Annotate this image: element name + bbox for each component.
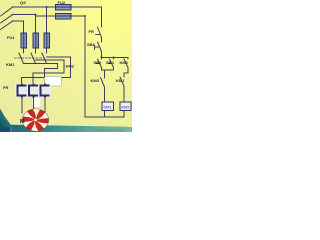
svg-text:KM1: KM1	[6, 62, 15, 67]
contact KM3 NC	[101, 78, 105, 88]
band edge highlight	[10, 125, 12, 132]
wire vertical phase B	[35, 16, 37, 34]
junction node SB1/rung	[101, 57, 103, 59]
teal bottom band	[0, 125, 132, 133]
wire below fuse A	[23, 47, 25, 53]
left rail	[84, 16, 86, 117]
svg-text:KM2: KM2	[122, 105, 131, 110]
wire vertical phase C	[46, 7, 48, 34]
white label box	[45, 77, 62, 87]
heater FR pole C	[41, 84, 50, 98]
coil KM2	[120, 102, 131, 111]
slide background	[0, 0, 132, 132]
svg-text:FR: FR	[89, 29, 94, 34]
coil KM1	[102, 102, 114, 111]
fuse FU1 pole A	[21, 33, 27, 48]
rung merge	[102, 68, 114, 71]
fuse FU2 lower	[56, 14, 72, 20]
heater row backdrop	[15, 83, 52, 98]
wire control rail tap	[36, 15, 86, 17]
svg-text:SB2: SB2	[94, 60, 103, 65]
contact KM1 pole C	[42, 53, 47, 64]
loop wire outer	[22, 57, 71, 85]
contact KM1 pole A	[19, 53, 24, 64]
phase L2 switch blade	[1, 14, 14, 23]
contact SB1 NC button	[98, 42, 102, 52]
contact KM1 pole B	[31, 53, 36, 64]
phase L1 switch blade	[1, 7, 14, 16]
motor M pinwheel	[23, 109, 49, 131]
bottom rail	[85, 116, 124, 118]
svg-text:KM1: KM1	[104, 105, 113, 110]
heater FR pole B	[29, 84, 38, 98]
svg-text:www.zxxk.com: www.zxxk.com	[97, 127, 124, 132]
wire SB1 to node	[101, 52, 103, 58]
white box small	[32, 98, 41, 108]
heater FR pole A	[18, 84, 27, 98]
wire to coil1	[104, 87, 106, 102]
phase L3 switch blade	[1, 21, 14, 30]
wire below fuse C	[46, 47, 48, 53]
junction L2 tap	[35, 14, 37, 16]
loop wire middle	[33, 60, 64, 85]
contact KM1 aux branch3	[127, 58, 129, 60]
svg-text:FU1: FU1	[7, 35, 15, 40]
wire to coil2	[123, 87, 125, 103]
wire coil1 branch	[104, 70, 106, 78]
wire branch3 jog	[124, 68, 128, 78]
fuse FU1 pole C	[44, 33, 50, 48]
linkage dashed	[15, 57, 45, 59]
contact SB3 branch2	[113, 58, 115, 60]
fuse FU2 upper	[56, 5, 72, 11]
SB1 plunger	[94, 45, 96, 50]
svg-text:KM2: KM2	[66, 64, 75, 69]
wire FR to SB1	[101, 38, 103, 43]
svg-text:M: M	[20, 119, 25, 125]
wire vertical phase A	[23, 21, 25, 34]
svg-text:FU2: FU2	[58, 0, 66, 5]
contact SB2 NO	[101, 58, 103, 60]
wire coil1 bottom	[104, 111, 106, 118]
loop wire inner	[24, 64, 58, 85]
junction L1 tap	[46, 6, 48, 8]
svg-text:KM3: KM3	[91, 78, 100, 83]
band dark left block	[0, 124, 11, 132]
contact FR NC	[98, 27, 102, 38]
svg-text:KM1: KM1	[116, 78, 125, 83]
fuse FU1 pole B	[33, 33, 39, 48]
FR NC bar	[96, 34, 100, 36]
svg-text:FR: FR	[3, 85, 8, 90]
wire L1 horizontal	[12, 6, 102, 8]
wire L2 horizontal	[12, 14, 36, 16]
teal bottom-left corner wedge	[0, 109, 13, 128]
wire below heater A	[21, 97, 23, 114]
wire below heater B	[33, 97, 35, 110]
junction rung branch2	[113, 57, 115, 59]
svg-text:KM1: KM1	[120, 60, 129, 65]
junction left rail top	[84, 15, 86, 17]
wire below heater C	[44, 97, 46, 114]
svg-text:QS: QS	[20, 0, 26, 5]
wire L3 horizontal	[12, 20, 24, 22]
control right branch vertical top	[101, 7, 103, 27]
rung top	[102, 57, 129, 59]
svg-text:SB3: SB3	[106, 60, 115, 65]
wire below fuse B	[35, 47, 37, 53]
wire coil2 bottom	[123, 111, 125, 118]
contact KM1 NC interlock	[120, 77, 124, 87]
svg-text:SB1: SB1	[87, 42, 96, 47]
